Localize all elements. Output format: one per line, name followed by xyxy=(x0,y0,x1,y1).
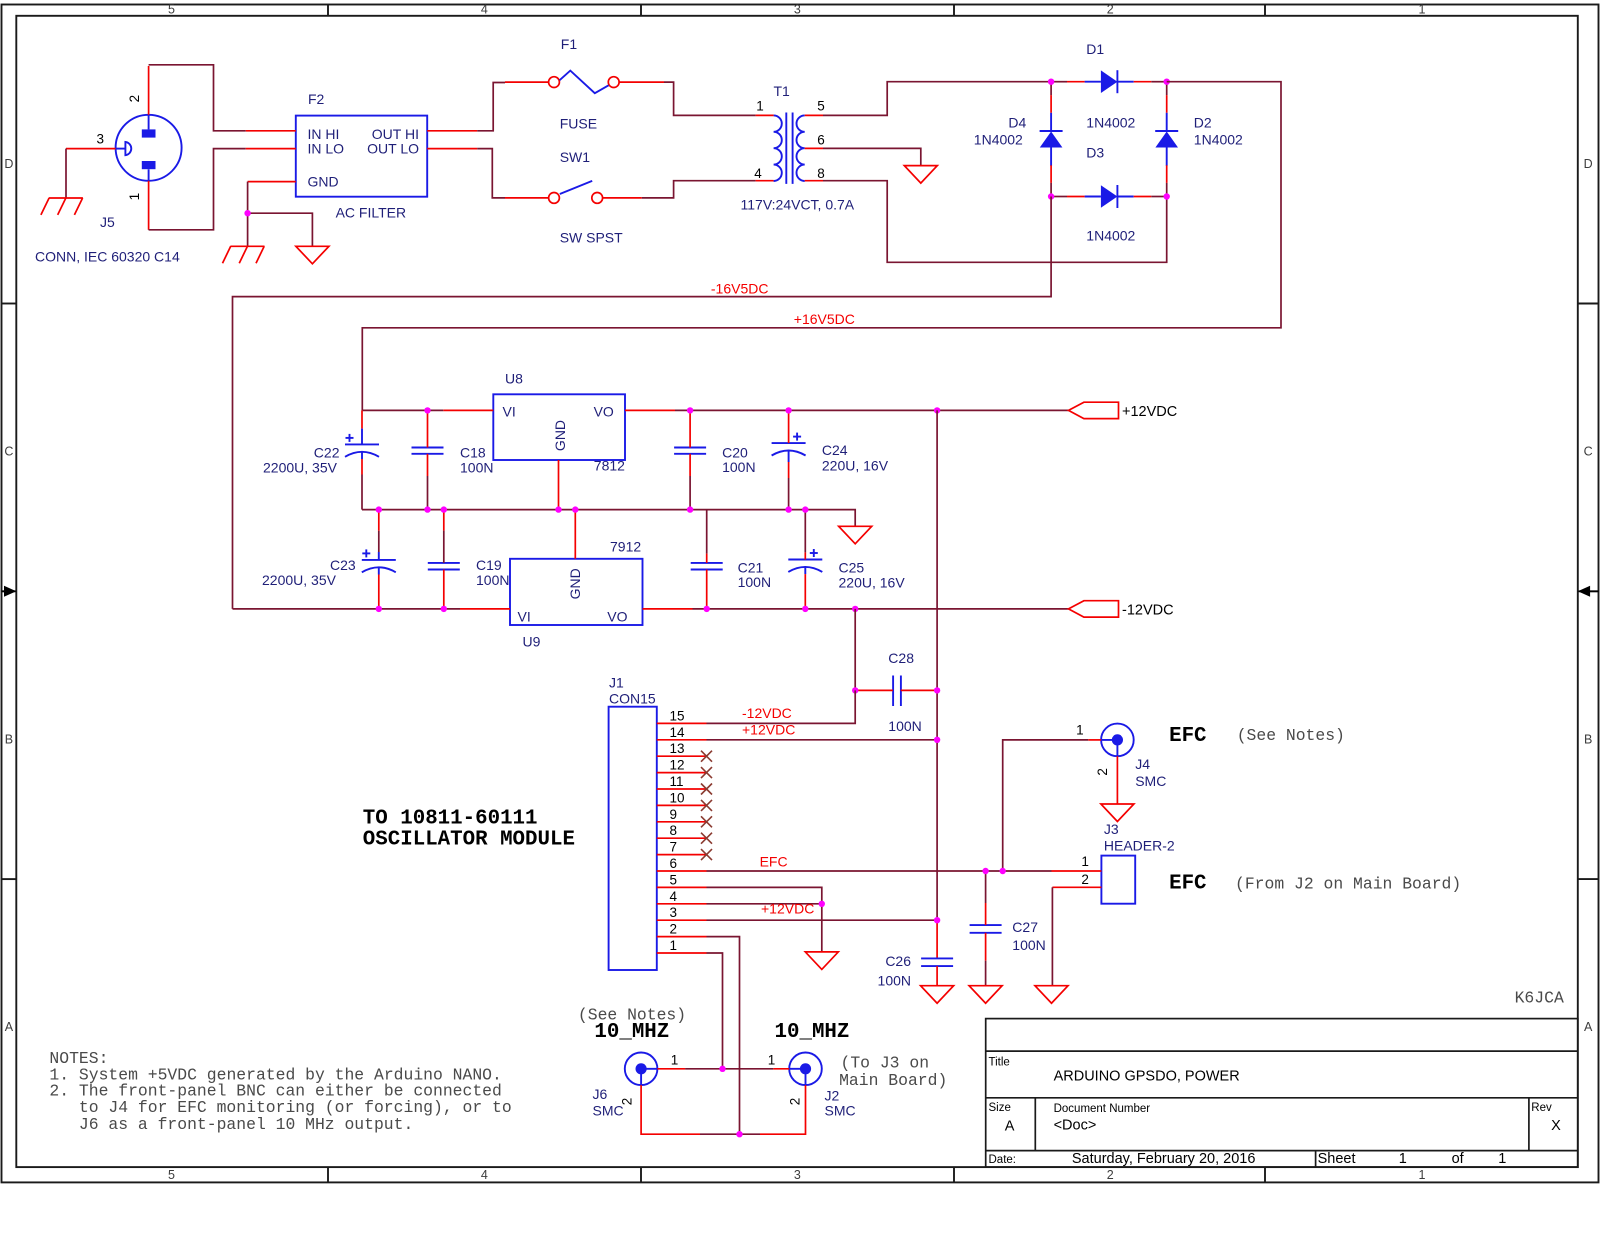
wire xyxy=(823,82,1051,116)
svg-text:8: 8 xyxy=(817,166,825,181)
wire xyxy=(642,181,756,198)
title block xyxy=(986,1019,1578,1168)
wire xyxy=(1051,81,1067,83)
ground (J4) xyxy=(1101,804,1134,822)
junction xyxy=(802,606,808,612)
svg-text:1: 1 xyxy=(1419,1168,1426,1182)
J6 pin 2 xyxy=(641,1085,700,1134)
svg-text:6: 6 xyxy=(817,133,825,148)
svg-text:J1: J1 xyxy=(609,675,624,691)
svg-text:D1: D1 xyxy=(1086,41,1104,57)
D4 pin stubs xyxy=(1050,95,1052,113)
J1 pin 3 xyxy=(657,919,707,921)
svg-text:4: 4 xyxy=(481,1168,488,1182)
fuse F1 xyxy=(549,77,620,88)
D1 pin stubs xyxy=(1067,81,1085,83)
junction xyxy=(1048,193,1054,199)
ground (C26) xyxy=(921,986,954,1004)
ground (T1 center tap) xyxy=(904,166,937,184)
svg-text:B: B xyxy=(5,733,13,747)
F1 pin left xyxy=(505,81,549,83)
svg-text:-12VDC: -12VDC xyxy=(742,705,792,721)
svg-text:10_MHZ: 10_MHZ xyxy=(594,1021,669,1044)
svg-text:3: 3 xyxy=(794,1168,801,1182)
svg-text:GND: GND xyxy=(308,173,339,189)
wire xyxy=(675,409,1069,411)
svg-text:VI: VI xyxy=(518,609,531,625)
svg-text:4: 4 xyxy=(754,166,762,181)
svg-text:100N: 100N xyxy=(1012,937,1045,953)
J1 pin 6 xyxy=(657,870,707,872)
regulator U8 7812 xyxy=(493,394,625,460)
capacitor C25 xyxy=(788,549,822,572)
svg-text:1: 1 xyxy=(768,1053,776,1068)
svg-text:C: C xyxy=(1584,445,1593,459)
svg-text:100N: 100N xyxy=(722,459,755,475)
svg-text:K6JCA: K6JCA xyxy=(1515,988,1564,1007)
capacitor xyxy=(412,448,444,454)
T1 pin 4 xyxy=(756,180,774,182)
svg-text:Document Number: Document Number xyxy=(1054,1103,1151,1115)
svg-text:TO 10811-60111: TO 10811-60111 xyxy=(363,807,538,830)
svg-text:15: 15 xyxy=(670,708,685,723)
D3 pin stubs xyxy=(1067,196,1085,198)
junction xyxy=(1048,79,1054,85)
junction xyxy=(687,506,693,512)
svg-text:1: 1 xyxy=(756,99,764,114)
power flag -12VDC xyxy=(1069,601,1119,617)
wire xyxy=(247,182,249,247)
svg-text:C24: C24 xyxy=(822,442,848,458)
junction xyxy=(244,210,250,216)
C28 pin stubs xyxy=(855,689,893,691)
J3 pin 2 xyxy=(1052,886,1101,888)
junction xyxy=(982,868,988,874)
svg-text:F2: F2 xyxy=(308,91,325,107)
junction xyxy=(424,506,430,512)
svg-text:3: 3 xyxy=(97,131,105,146)
capacitor xyxy=(970,925,1002,933)
svg-text:VI: VI xyxy=(503,403,516,419)
SW1 pin left xyxy=(505,197,549,199)
no-connect xyxy=(701,767,712,778)
wire xyxy=(707,919,938,921)
svg-text:100N: 100N xyxy=(888,718,921,734)
wire xyxy=(149,149,246,230)
svg-text:SMC: SMC xyxy=(825,1103,856,1119)
J5 pin 2 xyxy=(148,66,150,115)
svg-text:J2: J2 xyxy=(825,1087,840,1103)
svg-text:IN LO: IN LO xyxy=(308,141,345,157)
svg-text:8: 8 xyxy=(670,823,678,838)
svg-text:C23: C23 xyxy=(330,557,356,573)
wire xyxy=(362,510,855,527)
svg-text:1: 1 xyxy=(1498,1151,1506,1167)
svg-text:4: 4 xyxy=(481,3,488,17)
svg-text:+12VDC: +12VDC xyxy=(761,901,814,917)
wire xyxy=(823,148,921,165)
T1 pin 8 xyxy=(805,180,823,182)
J1 pin 9 xyxy=(657,821,707,823)
svg-text:CONN, IEC 60320 C14: CONN, IEC 60320 C14 xyxy=(35,248,180,264)
junction xyxy=(785,506,791,512)
svg-text:2: 2 xyxy=(788,1098,803,1106)
wire xyxy=(707,690,856,723)
capacitor xyxy=(691,563,723,570)
svg-text:J6 as a front-panel 10 MHz out: J6 as a front-panel 10 MHz output. xyxy=(79,1115,413,1134)
svg-text:+12VDC: +12VDC xyxy=(742,722,795,738)
junction xyxy=(687,407,693,413)
J1 pin 5 xyxy=(657,886,707,888)
T1 pin 6 xyxy=(805,147,823,149)
wire xyxy=(65,149,67,198)
no-connect xyxy=(701,833,712,844)
J4 pin 2 xyxy=(1116,756,1118,804)
wire xyxy=(477,149,505,198)
U8 pin VI xyxy=(443,409,493,411)
svg-text:C: C xyxy=(4,445,13,459)
svg-text:9: 9 xyxy=(670,807,678,822)
svg-text:2: 2 xyxy=(127,95,142,103)
ground (J1 pins 4-5) xyxy=(805,952,838,970)
J1 pin 12 xyxy=(657,772,707,774)
svg-text:to J4 for EFC monitoring (or f: to J4 for EFC monitoring (or forcing), o… xyxy=(79,1098,512,1117)
junction xyxy=(441,606,447,612)
svg-text:A: A xyxy=(1005,1118,1015,1134)
svg-text:D3: D3 xyxy=(1086,145,1104,161)
svg-text:VO: VO xyxy=(607,609,627,625)
svg-text:12: 12 xyxy=(670,758,685,773)
U9 pin VO xyxy=(643,608,693,610)
wire xyxy=(1151,81,1166,83)
svg-text:Title: Title xyxy=(989,1056,1010,1068)
svg-text:C27: C27 xyxy=(1012,919,1038,935)
svg-text:C19: C19 xyxy=(476,557,502,573)
svg-text:100N: 100N xyxy=(476,572,509,588)
svg-text:10_MHZ: 10_MHZ xyxy=(775,1021,850,1044)
J4 pin 1 xyxy=(1088,739,1101,741)
J2 pin 1 xyxy=(773,1068,789,1070)
chassis ground xyxy=(296,246,329,263)
F2 pin IN HI xyxy=(246,130,296,132)
svg-text:EFC: EFC xyxy=(1169,725,1206,748)
wire xyxy=(233,608,461,610)
svg-text:+16V5DC: +16V5DC xyxy=(794,311,855,327)
BNC J4 xyxy=(1101,724,1134,757)
junction xyxy=(1164,193,1170,199)
svg-text:4: 4 xyxy=(670,889,678,904)
svg-text:SW1: SW1 xyxy=(560,149,591,165)
wire xyxy=(693,608,1069,610)
svg-text:OSCILLATOR MODULE: OSCILLATOR MODULE xyxy=(363,828,575,851)
wire xyxy=(707,870,1052,872)
svg-text:14: 14 xyxy=(670,725,686,740)
J1 pin 14 xyxy=(657,739,707,741)
J6 pin 1 xyxy=(657,1068,685,1070)
connector J1 CON15 xyxy=(609,707,657,970)
ground (C27) xyxy=(969,986,1002,1004)
svg-text:7912: 7912 xyxy=(610,538,641,554)
junction xyxy=(785,407,791,413)
svg-text:2: 2 xyxy=(1095,768,1110,776)
svg-text:Sheet: Sheet xyxy=(1318,1151,1356,1167)
svg-text:10: 10 xyxy=(670,790,685,805)
J1 pin 10 xyxy=(657,804,707,806)
junction xyxy=(934,687,940,693)
svg-text:2: 2 xyxy=(1107,1168,1114,1182)
F2 OUT LO pin xyxy=(427,148,477,150)
junction xyxy=(934,737,940,743)
svg-text:1N4002: 1N4002 xyxy=(974,132,1023,148)
transformer T1 xyxy=(774,113,805,184)
svg-text:1: 1 xyxy=(1081,854,1089,869)
svg-text:2: 2 xyxy=(1107,3,1114,17)
svg-text:C22: C22 xyxy=(314,445,340,461)
svg-text:ARDUINO GPSDO, POWER: ARDUINO GPSDO, POWER xyxy=(1054,1069,1240,1085)
svg-text:13: 13 xyxy=(670,741,685,756)
T1 pin 1 xyxy=(756,114,774,116)
svg-text:7: 7 xyxy=(670,840,678,855)
svg-text:(See Notes): (See Notes) xyxy=(1237,726,1345,745)
wire xyxy=(1050,82,1052,95)
wire xyxy=(1050,183,1052,197)
svg-text:A: A xyxy=(1584,1020,1593,1034)
svg-text:SMC: SMC xyxy=(593,1103,624,1119)
F2 OUT HI pin xyxy=(427,130,477,132)
wire xyxy=(233,197,1052,609)
svg-text:6: 6 xyxy=(670,856,678,871)
svg-text:100N: 100N xyxy=(878,973,911,989)
earth ground GND2 xyxy=(223,246,265,263)
connector J5 (IEC inlet) xyxy=(116,115,182,181)
svg-text:D: D xyxy=(4,157,13,171)
svg-text:Size: Size xyxy=(989,1102,1011,1114)
wire xyxy=(362,409,443,411)
junction xyxy=(1164,79,1170,85)
svg-text:1N4002: 1N4002 xyxy=(1086,115,1135,131)
svg-text:5: 5 xyxy=(168,3,175,17)
switch SW1 xyxy=(549,193,603,204)
svg-text:C18: C18 xyxy=(460,445,486,461)
junction xyxy=(852,606,858,612)
svg-text:2: 2 xyxy=(670,922,678,937)
svg-text:T1: T1 xyxy=(774,83,791,99)
svg-text:Date:: Date: xyxy=(989,1154,1017,1166)
junction xyxy=(704,606,710,612)
J1 pin 2 xyxy=(657,936,707,938)
svg-text:VO: VO xyxy=(594,403,614,419)
ground (rail) xyxy=(839,526,872,544)
svg-text:Main Board): Main Board) xyxy=(839,1071,947,1090)
no-connect xyxy=(701,816,712,827)
svg-text:EFC: EFC xyxy=(760,854,788,870)
wire xyxy=(700,1133,760,1135)
svg-text:1: 1 xyxy=(127,193,142,201)
capacitor xyxy=(674,448,706,454)
J1 pin 4 xyxy=(657,903,707,905)
svg-text:5: 5 xyxy=(670,872,678,887)
svg-text:D2: D2 xyxy=(1194,115,1212,131)
svg-text:J5: J5 xyxy=(100,214,115,230)
svg-text:117V:24VCT, 0.7A: 117V:24VCT, 0.7A xyxy=(741,196,855,212)
wire xyxy=(1166,183,1168,197)
capacitor C26 100N xyxy=(921,958,953,966)
BNC J2 xyxy=(789,1053,822,1086)
svg-text:C26: C26 xyxy=(885,953,911,969)
svg-text:F1: F1 xyxy=(561,36,578,52)
svg-text:(From J2 on Main Board): (From J2 on Main Board) xyxy=(1235,875,1461,894)
capacitor C24 xyxy=(772,433,806,456)
svg-text:D4: D4 xyxy=(1008,115,1026,131)
J3 pin 1 xyxy=(1052,870,1102,872)
wire xyxy=(854,609,856,691)
svg-text:-12VDC: -12VDC xyxy=(1122,603,1174,619)
junction xyxy=(852,687,858,693)
J1 pin 8 xyxy=(657,837,707,839)
svg-text:7812: 7812 xyxy=(594,457,625,473)
junction xyxy=(424,407,430,413)
wire xyxy=(477,83,505,131)
wire xyxy=(1151,196,1166,198)
AC filter F2 xyxy=(296,116,427,197)
svg-text:J3: J3 xyxy=(1104,821,1119,837)
svg-text:1: 1 xyxy=(670,938,678,953)
svg-text:C28: C28 xyxy=(888,650,914,666)
junction xyxy=(934,917,940,923)
wire xyxy=(707,937,740,1135)
wire xyxy=(362,82,1281,411)
svg-text:5: 5 xyxy=(817,99,825,114)
svg-text:220U, 16V: 220U, 16V xyxy=(839,575,906,591)
svg-text:100N: 100N xyxy=(738,574,771,590)
J5 pin 3 xyxy=(66,148,116,150)
svg-text:HEADER-2: HEADER-2 xyxy=(1104,838,1175,854)
svg-text:GND: GND xyxy=(567,568,583,599)
svg-text:SMC: SMC xyxy=(1135,773,1166,789)
junction xyxy=(819,901,825,907)
capacitor C23 xyxy=(362,549,396,572)
wire xyxy=(936,410,938,920)
svg-text:-16V5DC: -16V5DC xyxy=(711,280,769,296)
svg-text:A: A xyxy=(5,1020,14,1034)
BNC J6 xyxy=(625,1053,658,1086)
wire xyxy=(1003,740,1088,871)
wire xyxy=(685,1068,773,1070)
junction xyxy=(934,407,940,413)
connector J3 HEADER-2 xyxy=(1101,856,1135,904)
U9 pin GND xyxy=(574,510,576,559)
no-connect xyxy=(701,800,712,811)
earth ground GND1 xyxy=(41,198,83,215)
junction xyxy=(376,606,382,612)
power flag +12VDC xyxy=(1069,402,1119,418)
svg-text:OUT LO: OUT LO xyxy=(367,141,419,157)
svg-text:(To J3 on: (To J3 on xyxy=(841,1053,930,1072)
U8 pin GND xyxy=(558,460,560,510)
svg-text:2: 2 xyxy=(1081,872,1089,887)
J1 pin 7 xyxy=(657,854,707,856)
junction xyxy=(572,506,578,512)
junction xyxy=(736,1131,742,1137)
J1 pin 15 xyxy=(657,722,707,724)
wire xyxy=(707,887,822,903)
wire xyxy=(248,213,313,246)
diode D4 xyxy=(1040,113,1063,166)
svg-text:1: 1 xyxy=(1399,1151,1407,1167)
svg-text:3: 3 xyxy=(670,905,678,920)
svg-text:EFC: EFC xyxy=(1169,873,1206,896)
wire xyxy=(1051,196,1067,198)
svg-text:U9: U9 xyxy=(523,633,541,649)
wire xyxy=(707,739,938,741)
svg-text:X: X xyxy=(1551,1118,1561,1134)
no-connect xyxy=(701,784,712,795)
svg-text:FUSE: FUSE xyxy=(560,116,597,132)
svg-text:<Doc>: <Doc> xyxy=(1054,1118,1097,1134)
capacitor xyxy=(428,563,460,570)
svg-text:1: 1 xyxy=(671,1053,679,1068)
svg-text:J4: J4 xyxy=(1135,756,1150,772)
U9 pin VI xyxy=(460,608,510,610)
wire xyxy=(1051,887,1053,985)
diode D1 xyxy=(1085,70,1134,93)
junction xyxy=(802,506,808,512)
junction xyxy=(1000,868,1006,874)
no-connect xyxy=(701,751,712,762)
svg-text:C25: C25 xyxy=(839,560,865,576)
svg-text:2200U, 35V: 2200U, 35V xyxy=(262,572,337,588)
svg-text:of: of xyxy=(1452,1151,1465,1167)
SW1 pin right xyxy=(603,197,642,199)
wire xyxy=(707,953,723,1069)
svg-text:3: 3 xyxy=(794,3,801,17)
svg-text:Rev: Rev xyxy=(1531,1102,1552,1114)
capacitor C28 100N xyxy=(893,676,901,707)
svg-text:11: 11 xyxy=(670,774,684,789)
junction xyxy=(376,506,382,512)
wire xyxy=(149,65,246,131)
F2 pin GND xyxy=(248,181,296,183)
svg-text:Saturday, February 20, 2016: Saturday, February 20, 2016 xyxy=(1072,1151,1256,1167)
J1 pin 13 xyxy=(657,755,707,757)
F2 pin IN LO xyxy=(246,148,296,150)
svg-text:2200U, 35V: 2200U, 35V xyxy=(263,460,338,476)
svg-text:220U, 16V: 220U, 16V xyxy=(822,457,889,473)
J1 pin 1 xyxy=(657,952,707,954)
wire xyxy=(1166,82,1168,95)
svg-text:1N4002: 1N4002 xyxy=(1086,227,1135,243)
svg-text:+12VDC: +12VDC xyxy=(1122,404,1177,420)
T1 pin 5 xyxy=(805,114,823,116)
J2 pin 2 xyxy=(760,1085,806,1134)
D2 pin stubs xyxy=(1166,95,1168,113)
J5 pin 1 xyxy=(148,181,150,230)
svg-text:CON15: CON15 xyxy=(609,691,656,707)
capacitor C22 xyxy=(345,434,379,457)
ground (J3 pin2) xyxy=(1035,986,1068,1004)
svg-text:1: 1 xyxy=(1076,723,1084,738)
U8 pin VO xyxy=(625,409,675,411)
svg-text:SW SPST: SW SPST xyxy=(560,230,623,246)
svg-text:U8: U8 xyxy=(505,371,523,387)
wire xyxy=(823,181,1167,263)
svg-text:J6: J6 xyxy=(593,1086,608,1102)
svg-text:1N4002: 1N4002 xyxy=(1194,132,1243,148)
diode D2 xyxy=(1155,113,1178,166)
wire xyxy=(707,904,822,952)
svg-text:100N: 100N xyxy=(460,460,493,476)
no-connect xyxy=(701,849,712,860)
